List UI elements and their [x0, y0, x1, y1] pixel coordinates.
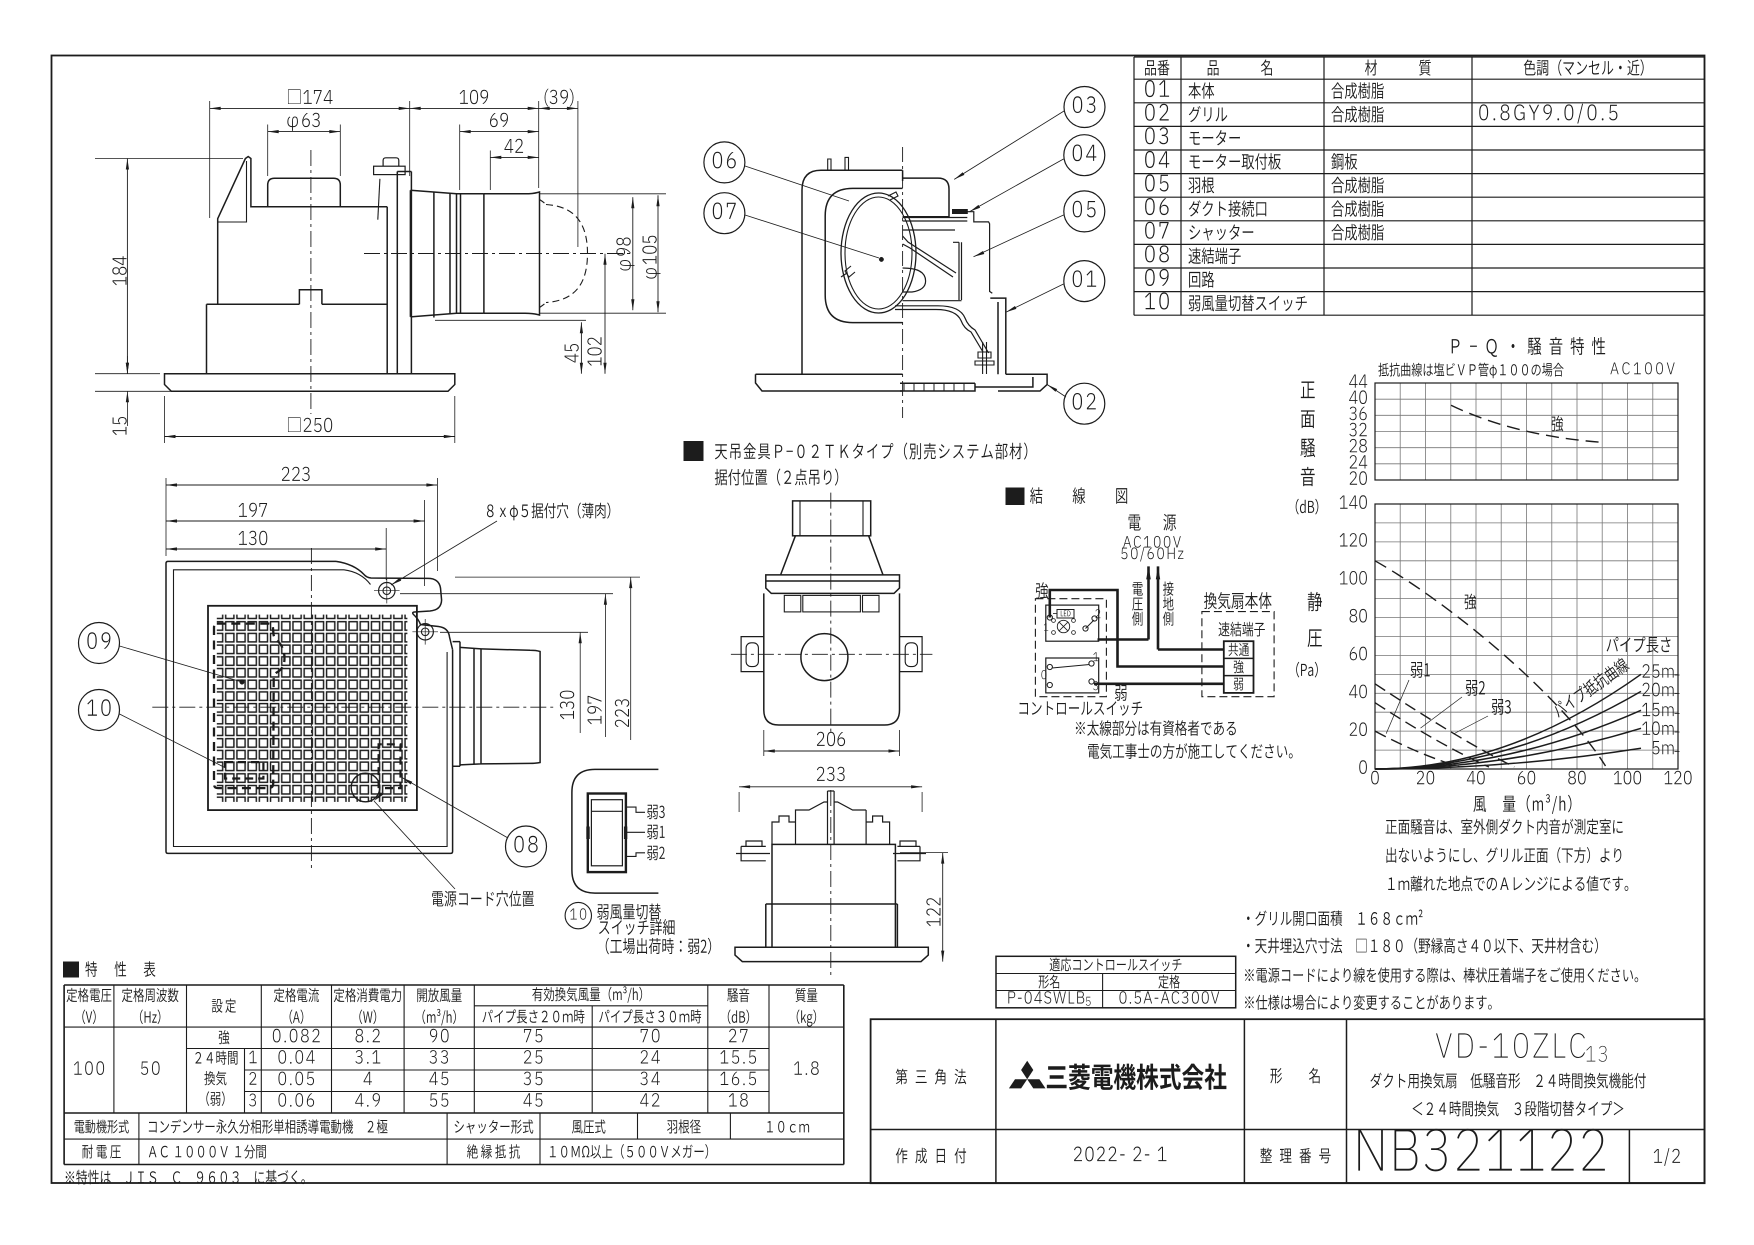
plan hole 2 [417, 624, 433, 640]
power cord hole label [432, 891, 443, 906]
fan body dashed box [1202, 612, 1274, 697]
scroll dashed outline [214, 624, 285, 789]
side view grille flange [165, 374, 455, 392]
curve kyou label [1465, 594, 1477, 610]
spec table headers [67, 988, 78, 1002]
rotary switch symbol [1057, 620, 1069, 632]
spec table title [64, 962, 79, 977]
spec table values [74, 1062, 82, 1075]
date label [896, 1148, 908, 1164]
section ring tab bottom [841, 266, 855, 277]
chart subtitle AC100V [1610, 362, 1618, 374]
power spec [1123, 536, 1131, 547]
model number VD-10ZLC13 [1436, 1033, 1452, 1057]
switch detail caption [597, 904, 608, 919]
noise chart kyou label [1552, 416, 1564, 432]
title block grid [871, 1019, 1705, 1183]
ground side label [1163, 582, 1174, 596]
switch box2 pins [1047, 664, 1052, 669]
plan right dim 197 [400, 593, 613, 595]
pressure chart x axis title [1473, 796, 1486, 812]
voltage side label [1133, 582, 1143, 595]
switch detail balloon 10 [565, 902, 591, 928]
wire voltage [1098, 638, 1149, 641]
grille waffle grid [217, 615, 408, 802]
section duct mount rounded square [825, 188, 902, 322]
section casing right wall [903, 212, 993, 294]
bracket top centerline v [830, 493, 832, 734]
section scroll bottom [895, 306, 989, 353]
bracket top left tab [741, 637, 764, 672]
section flange left [756, 374, 903, 391]
spec table bottom rows [75, 1120, 85, 1133]
balloon 08 [506, 826, 547, 867]
side view upper body outline [207, 157, 268, 305]
power label [1129, 515, 1141, 531]
model desc line1 [1370, 1073, 1381, 1088]
section duct ring outer [841, 193, 916, 313]
bracket side body [772, 844, 895, 904]
section terminal screw [975, 342, 994, 374]
section body outline [802, 170, 903, 374]
parts table rows [1145, 80, 1155, 97]
cord hole circle [351, 773, 380, 802]
section body top pins [828, 157, 849, 170]
pipe curve 20m [1375, 691, 1641, 769]
label jaku3 [1492, 699, 1504, 715]
switch pin1 [1047, 615, 1052, 620]
katamei label [1270, 1068, 1282, 1083]
chart subtitle resistance note [1378, 363, 1388, 377]
bracket dim 233 [738, 792, 740, 812]
noise chart kyou curve [1451, 405, 1603, 442]
bracket side lower body [766, 904, 898, 947]
noise note line1 [1386, 820, 1397, 834]
third angle projection label [896, 1069, 908, 1085]
section impeller funnel [903, 236, 962, 301]
fan body label [1204, 592, 1217, 609]
side view duct ring [434, 192, 450, 317]
plan vertical centerline [310, 548, 312, 870]
plan flange outline [166, 561, 453, 853]
kyou wire label [1036, 582, 1048, 599]
pressure chart grid [1374, 504, 1376, 769]
section motor block [903, 178, 949, 217]
dashed rect bottom left [225, 762, 263, 778]
side view mounting plate [397, 172, 411, 374]
serial value NB321122 [1358, 1130, 1383, 1171]
switch detail nubs [587, 827, 589, 839]
wire jaku [1094, 682, 1224, 685]
terminal block [1224, 641, 1254, 693]
pressure chart y axis title [1308, 592, 1322, 611]
curve jaku2 [1375, 703, 1489, 767]
serial label [1260, 1148, 1272, 1163]
wire ground [1158, 648, 1224, 651]
dimension 102 [604, 254, 606, 374]
plan dim 197 [424, 500, 426, 586]
bracket side right clip [893, 841, 926, 861]
dimension 184 [95, 158, 243, 160]
balloon 05 [1064, 191, 1105, 232]
jaku wire label [1115, 685, 1127, 701]
switch inner box bottom [1046, 658, 1099, 693]
bracket top taper [781, 536, 883, 575]
side view duct opening dashed top [540, 200, 547, 308]
leader 01 [1006, 284, 1064, 312]
bracket side centerline [830, 790, 832, 975]
side view motor hump [268, 178, 341, 207]
leader 02 [1047, 385, 1066, 398]
page number [1654, 1149, 1662, 1163]
dimension square 250 [164, 396, 166, 443]
bracket side flange [735, 947, 928, 961]
bracket top right tab [900, 637, 923, 672]
section duct ring inner [845, 197, 912, 309]
LED symbol [1057, 610, 1074, 619]
model desc line2 [1412, 1102, 1422, 1115]
pipe curve value labels [1643, 664, 1650, 677]
section grille teeth [903, 383, 905, 391]
label jaku2 [1466, 680, 1478, 696]
wire kyou [1050, 590, 1224, 667]
note grill area [1247, 916, 1250, 920]
leader 03 [954, 111, 1064, 179]
bracket top body [764, 593, 900, 725]
bracket side top detail [772, 791, 890, 844]
dimension 42 [489, 151, 491, 191]
balloon 04 [1064, 135, 1105, 176]
balloon 02 [1064, 383, 1105, 424]
pipe curve 15m [1375, 710, 1641, 769]
dimension paren 39 [577, 101, 579, 247]
plan dim 130 [385, 528, 387, 580]
wiring note1 [1076, 722, 1085, 734]
dimension phi 105 [540, 193, 667, 195]
mitsubishi logo text [1047, 1066, 1067, 1088]
side view duct bell [484, 192, 540, 315]
control switch caption [1019, 703, 1028, 715]
leader 05 [974, 215, 1064, 257]
bracket top centerline h [731, 653, 933, 655]
side view vertical centerline [310, 150, 312, 414]
plan duct bell [481, 649, 540, 764]
bracket side left clip [736, 841, 770, 861]
mitsubishi logo mark [1021, 1061, 1033, 1079]
terminal cells [1228, 643, 1238, 656]
leader 07 [745, 215, 879, 258]
balloon 07 [704, 193, 745, 234]
side view roof inner line [218, 161, 247, 222]
dimension phi 63 [267, 125, 269, 177]
plan inner square [174, 570, 448, 847]
side view duct cone [410, 190, 456, 317]
plan duct ring [460, 647, 481, 765]
plan horizontal centerline [152, 706, 553, 708]
control switch table grid [996, 956, 1236, 1008]
side view bracket hook [374, 166, 406, 174]
side view lower body [207, 207, 388, 374]
bracket top slots [784, 595, 801, 612]
noise chart grid [1374, 383, 1376, 480]
balloon 01 [1064, 261, 1105, 302]
parts table grid [1134, 56, 1705, 58]
dimension square 174 [209, 101, 211, 218]
bracket header line1 [715, 444, 727, 459]
dimension 69 [459, 125, 461, 191]
control switch dashed box [1035, 599, 1106, 697]
chart title P-Q noise characteristics [1452, 339, 1460, 353]
side view duct pipe [457, 194, 484, 313]
plan right dim 130 [440, 631, 588, 633]
pipe curve 25m [1375, 674, 1641, 769]
noise note line3 [1388, 878, 1394, 890]
pipe resistance curve label [1550, 656, 1630, 719]
bracket top duct stub [793, 501, 871, 536]
switch detail body [588, 794, 626, 873]
section casing outer right [990, 298, 1006, 374]
section bell mouth [903, 268, 926, 292]
spec table footnote [66, 1171, 75, 1183]
curve jaku3 [1375, 684, 1514, 767]
side view duct opening dashed curve [546, 205, 588, 303]
dimension 109 [538, 101, 540, 188]
terminal label [1219, 622, 1230, 637]
side view horizontal centerline [364, 253, 632, 255]
date value [1074, 1147, 1082, 1162]
bracket header line2 [715, 469, 727, 486]
noise chart y axis title [1301, 381, 1315, 398]
bracket header bullet [684, 442, 703, 461]
plan hole 1 [379, 583, 395, 599]
plan right dim 223 [455, 576, 640, 578]
noise chart y labels [1349, 375, 1357, 388]
curve kyou strong [1375, 561, 1606, 766]
balloon 09 [79, 623, 120, 664]
section motor mount plate [903, 218, 968, 222]
switch detail connectors [626, 807, 645, 812]
plan duct neck [453, 642, 460, 767]
balloon 03 [1064, 87, 1105, 128]
section centerline [902, 147, 904, 418]
bracket dim 122 [900, 852, 948, 854]
wiring note2 [1088, 744, 1099, 759]
plan dim 223 [165, 478, 167, 556]
pipe length label [1607, 637, 1619, 652]
plan inner cut line [344, 570, 371, 585]
pressure chart y labels [1340, 496, 1348, 509]
switch pin2 contact [1083, 626, 1088, 631]
note power cord [1245, 969, 1254, 981]
mounting hole label [487, 504, 494, 517]
section pointer dot [879, 257, 883, 261]
noise note line2 [1386, 847, 1396, 863]
leader 06 [745, 166, 849, 201]
control switch table texts [1050, 958, 1060, 972]
balloon 06 [704, 142, 745, 183]
plan corner cut curve [336, 561, 453, 649]
bracket top circle [801, 634, 848, 681]
dashed square bottom right [379, 744, 401, 788]
side view bracket bolt [383, 158, 399, 166]
switch detail enclosure [572, 769, 659, 893]
leader 04 [970, 159, 1064, 212]
curve jaku1 [1375, 731, 1460, 767]
parts table header [1145, 60, 1156, 75]
note spec change [1245, 996, 1254, 1008]
bracket top flange [766, 575, 900, 594]
label jaku1 [1411, 662, 1423, 678]
switch labels [647, 805, 658, 820]
dimension phi 98 [632, 197, 634, 310]
spec table grid [64, 984, 844, 986]
bracket dim 206 [763, 730, 765, 756]
dimension 15 [95, 390, 200, 392]
section ring tab top [888, 192, 898, 200]
power arrows [1146, 566, 1151, 579]
wiring header [1006, 488, 1024, 505]
pressure chart x labels [1371, 771, 1379, 785]
pipe curve 10m [1375, 728, 1641, 769]
grille frame [208, 606, 417, 810]
pipe curve 5m [1375, 748, 1641, 769]
switch inner box top [1046, 605, 1099, 641]
side view top line to plate [340, 206, 387, 208]
balloon 10 [79, 690, 120, 731]
section grille [900, 374, 1047, 391]
section body left bottom [801, 373, 803, 375]
note ceiling hole [1247, 944, 1250, 948]
dimension 45 [435, 319, 586, 321]
